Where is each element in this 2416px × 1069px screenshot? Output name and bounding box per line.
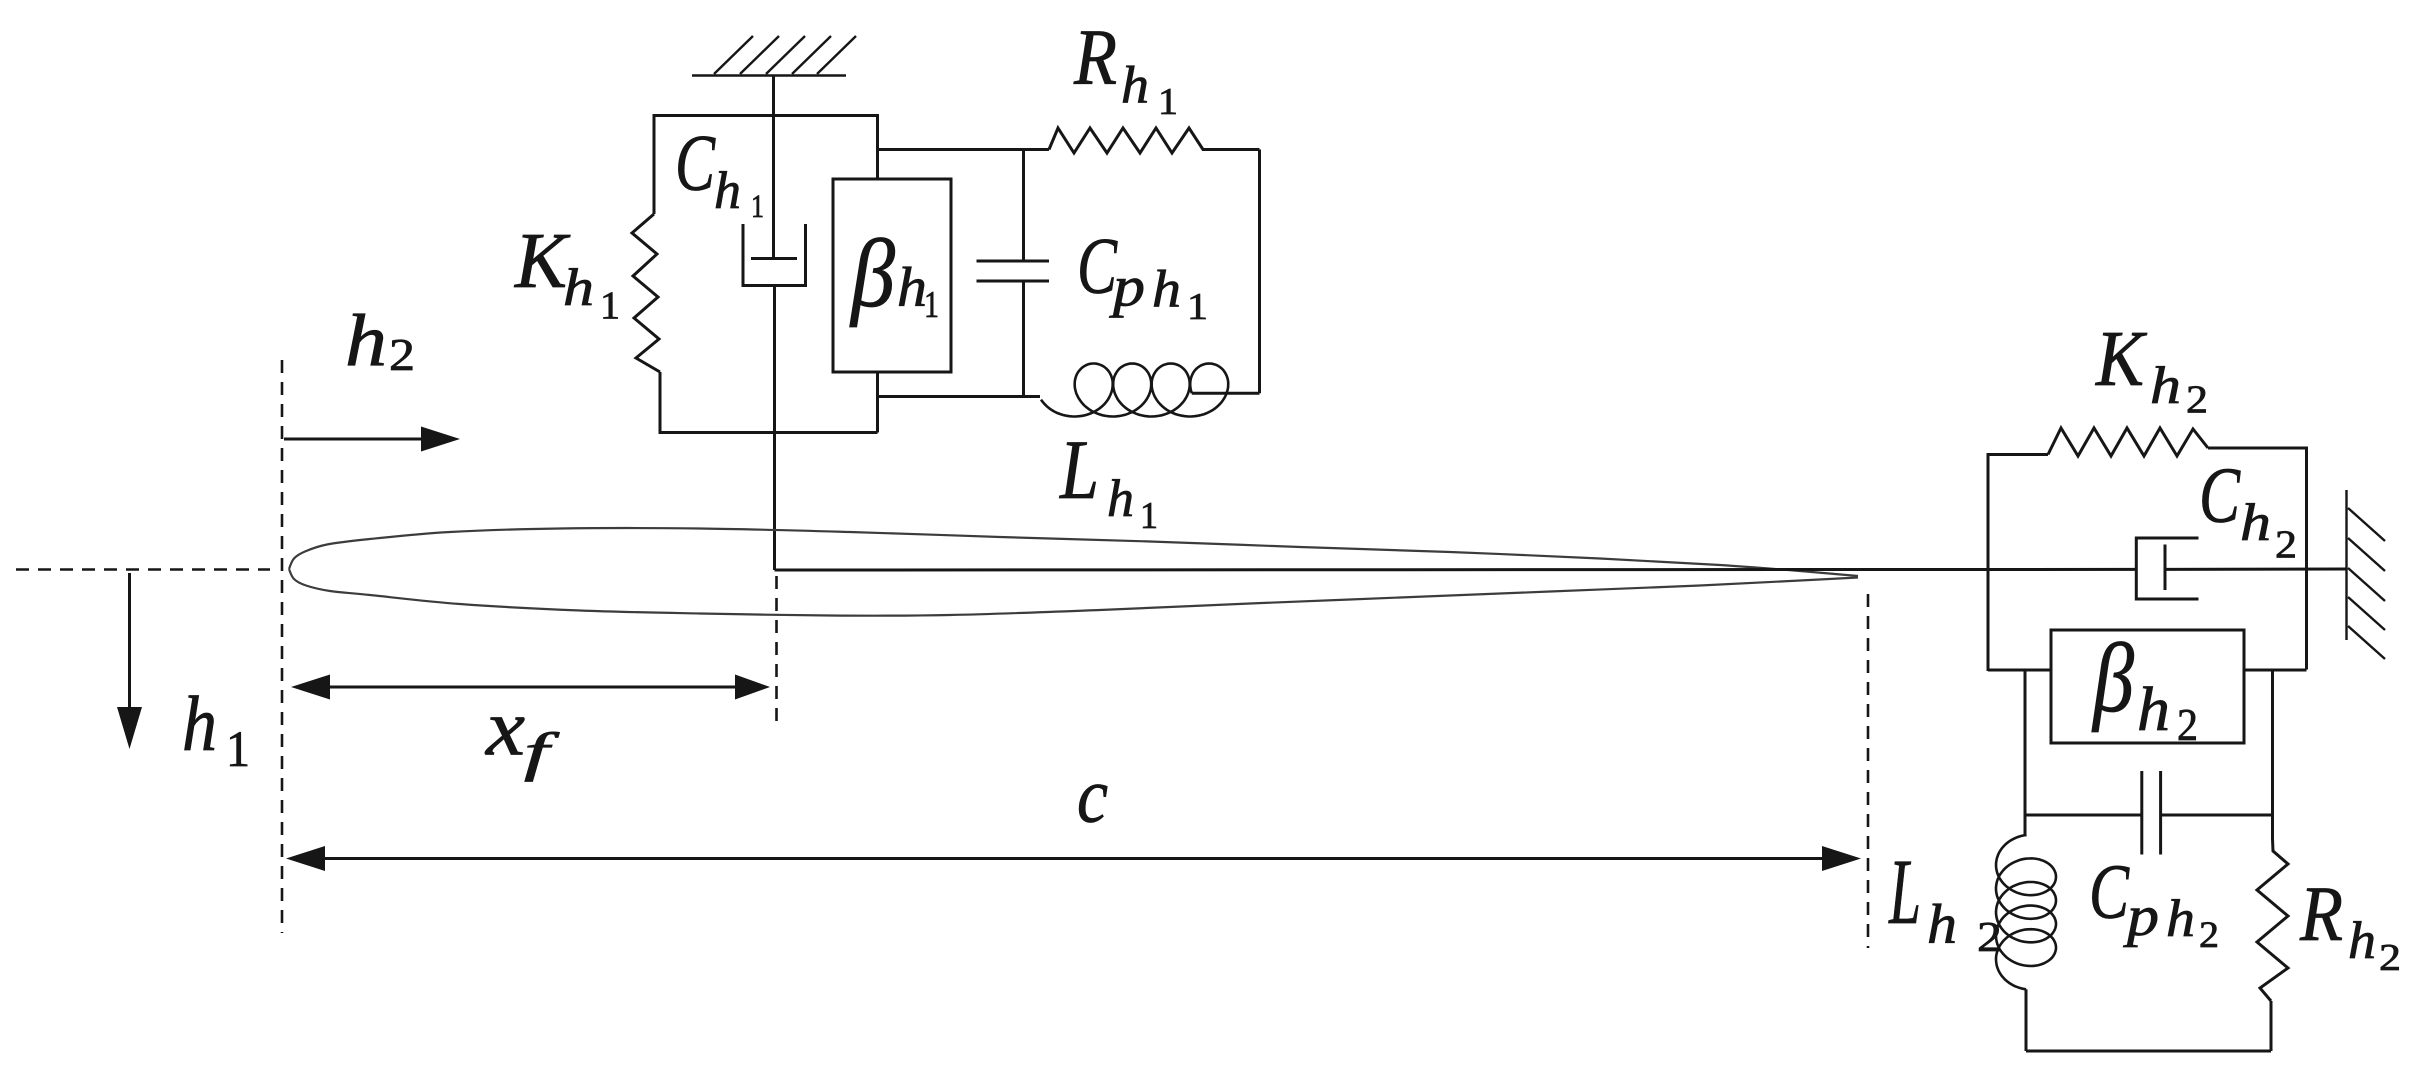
- wire frame top right h2: [2208, 447, 2307, 450]
- wire chord line right: [2165, 568, 2347, 571]
- spring K_h1: [632, 214, 660, 372]
- svg-text:h: h: [2150, 357, 2181, 415]
- wire capacitor top stub h1: [1022, 150, 1025, 262]
- svg-text:2: 2: [2186, 378, 2208, 421]
- svg-text:L: L: [1059, 423, 1099, 517]
- label L_h2: [1888, 841, 2002, 961]
- wire top terminal to shunt circuit h1: [878, 148, 1050, 151]
- svg-text:h: h: [2348, 912, 2376, 970]
- capacitor C_ph1: [977, 261, 1050, 281]
- dashed reference line left horizontal: [16, 568, 270, 571]
- svg-text:R: R: [2299, 870, 2343, 957]
- svg-text:p: p: [1109, 256, 1145, 319]
- label R_h2: [2299, 870, 2401, 979]
- box beta_h2: [2051, 630, 2244, 743]
- svg-text:h: h: [2166, 890, 2195, 948]
- damper C_h1 piston plate: [751, 257, 797, 260]
- svg-text:h: h: [2240, 494, 2271, 552]
- airfoil: [289, 528, 1858, 616]
- resistor R_h2: [2257, 839, 2288, 1001]
- damper C_h2 piston: [2164, 545, 2167, 591]
- svg-text:2: 2: [389, 330, 415, 380]
- wire capacitor bottom stub h1: [1022, 281, 1025, 397]
- svg-text:1: 1: [1187, 286, 1208, 328]
- arrow h1: [117, 573, 142, 749]
- wire rod from ground to damper piston: [772, 76, 775, 258]
- label C_ph1: [1077, 223, 1208, 328]
- resistor R_h1: [1049, 128, 1212, 153]
- svg-text:h: h: [2137, 676, 2170, 744]
- label C_h2: [2199, 453, 2297, 566]
- wire frame right line h1: [876, 114, 879, 433]
- label c: [1077, 752, 1108, 839]
- svg-text:1: 1: [600, 284, 620, 327]
- svg-text:h: h: [563, 259, 594, 317]
- wire bottom h2: [2026, 1050, 2271, 1053]
- label h_1 left: [182, 680, 250, 778]
- svg-text:β: β: [849, 220, 895, 327]
- label C_ph2: [2089, 848, 2219, 956]
- wire frame left h2: [1987, 453, 1990, 671]
- box beta_h1: [833, 179, 951, 372]
- svg-text:2: 2: [2379, 937, 2401, 979]
- wire resistor to right corner: [1212, 148, 1260, 151]
- inductor L_h1: [1041, 364, 1228, 417]
- label K_h1: [514, 218, 620, 327]
- wire inductor bottom stub h2: [2025, 989, 2028, 1051]
- wire capacitor right lead h2: [2161, 814, 2273, 817]
- dashed reference line leading edge vertical: [281, 360, 284, 933]
- svg-text:2: 2: [2177, 700, 2198, 750]
- capacitor C_ph2: [2142, 771, 2161, 855]
- label beta_h1: [849, 220, 939, 327]
- node frame top line h1: [654, 114, 878, 117]
- svg-text:R: R: [1073, 15, 1117, 102]
- svg-text:h: h: [897, 257, 927, 319]
- svg-text:h: h: [1121, 57, 1149, 115]
- svg-text:1: 1: [226, 722, 250, 778]
- label L_h1: [1059, 423, 1158, 537]
- dashed reference line pivot vertical: [775, 576, 778, 729]
- svg-text:L: L: [1888, 841, 1921, 944]
- wire inductor to right corner h1: [1192, 392, 1260, 395]
- svg-text:1: 1: [924, 284, 939, 326]
- wall ground right: [2347, 490, 2386, 659]
- arrow h2: [284, 427, 460, 452]
- label beta_h2: [2091, 624, 2198, 750]
- wire capacitor left lead h2: [2025, 814, 2142, 817]
- svg-text:c: c: [1077, 752, 1108, 839]
- svg-text:h: h: [182, 680, 217, 767]
- svg-text:h: h: [345, 301, 387, 383]
- damper C_h1 cup: [743, 224, 806, 286]
- wire frame bottom line h1: [659, 431, 878, 434]
- svg-text:1: 1: [1140, 495, 1158, 537]
- svg-text:h: h: [714, 162, 741, 220]
- label x_f: [485, 683, 561, 783]
- svg-text:2: 2: [2275, 523, 2297, 566]
- ground: [692, 36, 856, 76]
- wire bottom terminal to shunt circuit h1: [878, 395, 1041, 398]
- arrow c: [286, 846, 1861, 871]
- wire frame left lower segment: [659, 372, 662, 433]
- label h_2 left: [345, 301, 415, 383]
- wire frame left upper segment: [653, 114, 656, 214]
- svg-text:h: h: [1152, 261, 1181, 319]
- svg-text:2: 2: [1977, 915, 2002, 961]
- svg-text:h: h: [1107, 470, 1134, 528]
- svg-text:C: C: [675, 120, 716, 208]
- svg-text:1: 1: [1158, 81, 1178, 123]
- wire frame right h2: [2305, 447, 2308, 670]
- wire chord line left: [775, 568, 2137, 572]
- wire frame top left h2: [1988, 455, 2048, 458]
- label C_h1: [675, 120, 764, 225]
- svg-text:C: C: [2199, 453, 2241, 540]
- svg-text:β: β: [2091, 624, 2134, 733]
- wire left drop h2: [2024, 671, 2027, 836]
- svg-text:2: 2: [2199, 915, 2219, 956]
- wire resistor bottom stub h2: [2270, 1001, 2273, 1051]
- wire right side of shunt loop h1: [1258, 150, 1261, 394]
- wire pivot rod from damper cup to airfoil chord: [773, 286, 776, 571]
- dashed reference line trailing edge vertical: [1867, 594, 1870, 948]
- spring K_h2: [2048, 428, 2208, 456]
- inductor L_h2: [1996, 835, 2056, 989]
- svg-text:C: C: [2089, 848, 2130, 935]
- svg-text:1: 1: [751, 189, 764, 225]
- svg-text:x: x: [485, 683, 525, 773]
- damper C_h2 cup: [2136, 538, 2198, 599]
- wire frame bottom h2: [1988, 669, 2307, 672]
- wire right drop h2: [2271, 671, 2274, 839]
- svg-text:p: p: [2123, 885, 2159, 948]
- arrow x_f: [291, 675, 770, 700]
- svg-text:K: K: [2095, 316, 2148, 403]
- label R_h1: [1073, 15, 1178, 123]
- svg-text:h: h: [1927, 894, 1957, 956]
- label K_h2: [2095, 316, 2208, 421]
